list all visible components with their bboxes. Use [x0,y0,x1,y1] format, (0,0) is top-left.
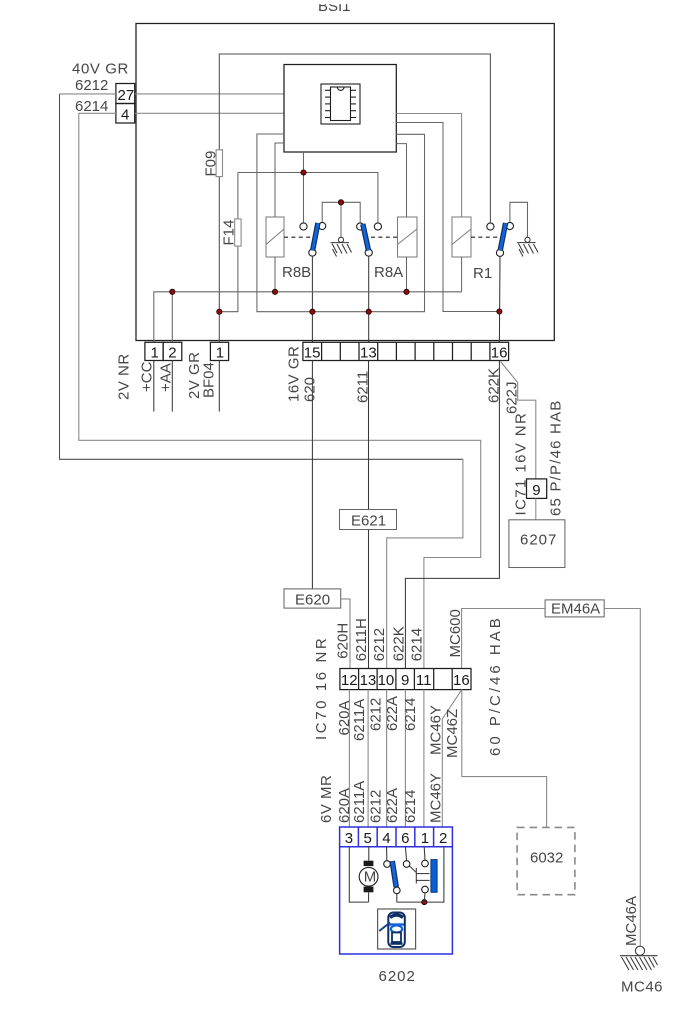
svg-text:6211H: 6211H [353,618,370,661]
wire CPU to R8B left contact node [303,152,305,173]
wire R8B coil top to CPU [275,143,284,217]
fuse F14 wire [219,173,238,312]
wire pin2 drop [171,292,173,343]
svg-text:40V GR: 40V GR [72,61,129,78]
R8A contact right [374,223,381,230]
wire pin4 to CPU [135,112,284,114]
relay R8B coil [266,217,284,257]
wire R8A coil top to CPU [396,144,406,217]
pin 27 box [116,84,135,104]
CPU inner box [284,65,396,153]
pin 4 box [116,104,135,124]
relay R1 coil [452,217,471,257]
svg-text:MC600: MC600 [447,609,464,657]
svg-text:13: 13 [360,345,377,362]
svg-text:622A: 622A [384,788,401,823]
node bus1 R8A coil [404,289,409,294]
wire pin6 to contact [405,847,406,861]
wire C2 to bus [423,893,426,902]
svg-text:15: 15 [304,345,321,362]
wire bus2 right segment [396,123,499,312]
node bus1 pin2 [170,289,175,294]
wire 6214 row2 pin11 to pin1 [423,690,425,827]
fuse F09 [216,150,222,177]
R8B blue bar [313,223,318,251]
pin 1 box [145,342,163,360]
svg-text:10: 10 [378,672,395,689]
wire bus1 supply y292 [154,292,462,343]
svg-text:F14: F14 [221,220,238,246]
svg-text:16V GR: 16V GR [286,346,303,402]
wire MC600 from EM46A to pin16 row2 [462,609,545,669]
svg-text:5: 5 [364,830,372,847]
wire S1 bottom to bus [396,894,398,902]
connector box 9 IC71 [527,479,547,499]
splice E620 box [284,589,341,608]
actuator linkage [410,866,430,883]
wire 6214 from pin 4 to left and down [79,113,481,668]
wire 622K down-left to pin9 row2 [405,361,499,669]
svg-text:MC46Y: MC46Y [428,705,445,755]
svg-text:2: 2 [439,830,447,847]
pin 1 BF04 box [210,342,228,360]
node junction y173 [301,170,306,175]
wire stub +CC [153,361,155,412]
svg-text:4: 4 [121,107,129,124]
connector row2 [340,669,471,690]
svg-text:R8B: R8B [282,264,311,281]
svg-text:BF04: BF04 [200,362,217,398]
6202 connector strip [340,827,453,847]
wire 6212 from pin 27 to left [60,93,116,95]
svg-text:2V NR: 2V NR [116,353,133,400]
svg-text:M: M [364,868,377,885]
wire ground bus R8B-R8A y202 [322,202,360,222]
svg-text:6214: 6214 [408,628,425,661]
svg-text:MC46Z: MC46Z [444,709,461,758]
node ground junction [338,200,343,205]
wire MC46Z row2 pin16 to 6032 [462,690,547,828]
component 6207 box [509,520,565,568]
contact B [403,861,410,868]
R1 dashed link [471,236,498,238]
svg-text:6211: 6211 [354,371,371,403]
R8B contact left [300,223,307,230]
svg-text:9: 9 [401,672,409,689]
switch S1 bottom contact [394,887,401,894]
wire pin5 to motor top [368,847,370,861]
wire R8B output down to pin 15 [311,256,313,342]
motor M [364,861,374,866]
wire R1 coil bottom [461,257,463,292]
wire stub +AA [171,361,173,412]
svg-text:E621: E621 [351,513,386,530]
wire pin3 to motor bottom [349,847,368,902]
svg-text:6207: 6207 [520,532,557,549]
svg-text:12: 12 [341,672,358,689]
svg-text:622J: 622J [504,381,521,414]
wire 622A row2 pin9 to pin6 [404,690,406,827]
car pictogram [388,913,405,948]
switch S1 blue bar [392,861,396,887]
node bus2 R8A [366,309,371,314]
wire pin4 to switch [386,847,388,861]
svg-text:6202: 6202 [379,968,416,985]
svg-text:R8A: R8A [374,264,403,281]
svg-text:60 P/C/46 HAB: 60 P/C/46 HAB [487,615,504,756]
node bus2 R8B [310,309,315,314]
svg-text:E620: E620 [295,592,330,609]
wire top bus y54 from F09 to R1 switch [219,54,490,342]
wire 622J diagonal to IC71 [501,362,536,479]
R8A contact bottom [365,249,372,256]
svg-text:13: 13 [360,672,377,689]
wire R1 coil top to CPU [396,114,461,218]
IC chip symbol [321,84,360,124]
svg-text:F09: F09 [203,151,220,177]
wire 6212 descent to pin 10 [387,459,463,668]
R1 blue bar [500,223,505,251]
contact C2 [422,886,429,893]
wire bottom bus to pin2 [397,847,444,902]
BSI unit box [136,24,554,341]
wire motor bottom [368,892,370,902]
svg-text:6212: 6212 [75,77,108,94]
svg-text:3: 3 [345,830,353,847]
wire 620A row2 pin12 to pin3 [348,690,350,827]
wire stub BF04 [218,361,220,412]
svg-text:11: 11 [416,672,432,689]
svg-text:65 P/P/46 HAB: 65 P/P/46 HAB [548,400,565,517]
svg-text:+AA: +AA [157,363,174,392]
fuse F14 [235,219,241,246]
svg-text:9: 9 [532,482,540,499]
svg-text:16: 16 [491,345,508,362]
svg-text:EM46A: EM46A [551,601,600,618]
wire R8B left contact up [303,173,305,223]
svg-text:622K: 622K [485,368,502,403]
node bus2 F09 [217,309,222,314]
pin 2 box [163,342,182,360]
wire R8A output down to pin 13 [368,256,370,342]
wire box9 to 6207 [535,498,537,519]
R8B contact bottom [309,249,316,256]
component 6032 dashed box [517,827,575,894]
car pictogram box [378,909,416,949]
svg-text:6214: 6214 [402,698,419,731]
svg-text:6032: 6032 [530,850,563,867]
wire R8A coil bottom [406,257,408,292]
svg-text:16: 16 [453,672,470,689]
ground symbol G2 [517,237,538,256]
svg-text:2: 2 [168,345,176,362]
wire pin27 to CPU [135,93,284,95]
wire MC46A from EM46A to ground [604,609,640,946]
svg-text:MC46Y: MC46Y [428,773,445,823]
svg-text:27: 27 [118,87,135,104]
ground symbol G1 [331,237,352,256]
node bus1 R8B coil [272,289,277,294]
ground MC46 [620,946,658,970]
svg-text:R1: R1 [473,265,492,282]
svg-text:6212: 6212 [368,698,385,731]
R8A blue bar [363,224,369,251]
wire 620 down to E620 [311,361,313,589]
R8B contact right [319,222,326,229]
svg-text:622K: 622K [390,626,407,661]
svg-text:6214: 6214 [75,98,108,115]
connector strip 15..16 [303,342,509,360]
svg-text:MC46: MC46 [621,979,663,996]
wire R1 right contact to ground [510,202,528,237]
R1 contact right [506,222,513,229]
R8A dashed link [371,236,398,238]
svg-text:6212: 6212 [368,790,385,823]
R1 contact bottom [496,249,503,256]
svg-text:6212: 6212 [371,628,388,661]
svg-text:1: 1 [421,830,429,847]
svg-text:1: 1 [216,345,224,362]
svg-text:1: 1 [151,345,159,362]
breaker blue bar [431,860,437,893]
svg-text:6211A: 6211A [351,781,368,823]
wire E620 output to pin12 row2 [341,599,350,669]
svg-text:+CC: +CC [139,361,156,392]
wire pin1 to contact C1 [423,847,426,860]
car pointer line [379,923,390,932]
wire R8B coil bottom [274,257,276,292]
wire bus y173 from F14 to R8A [238,173,378,223]
R8B dashed link [284,236,311,238]
svg-text:IC71 16V NR: IC71 16V NR [513,412,530,516]
splice EM46A box [545,600,604,617]
svg-text:6214: 6214 [402,790,419,823]
node bottom bus [422,900,427,905]
wire ground drop [340,202,342,237]
R8A contact left [357,223,364,230]
R1 contact left [487,223,494,230]
svg-text:620: 620 [302,377,319,402]
wire MC46Y row2 pin16 to pin2 [442,690,462,827]
svg-text:620H: 620H [335,623,352,659]
svg-text:6: 6 [401,830,409,847]
wire 6211 down through E621 [368,361,370,669]
splice E621 box [340,510,397,530]
node bus2 R1 [497,309,502,314]
svg-text:MC46A: MC46A [623,896,640,946]
wire 6212 left vertical run [60,94,463,459]
wire 6212 row2 pin10 to pin4 [386,690,388,827]
component 6202 window motor unit box [340,827,453,954]
wire 6211A row2 pin13 to pin5 [367,690,369,827]
contact C1 [422,860,429,867]
wire R1 output down to pin 16 [498,256,501,342]
switch S1 top contact [384,861,391,868]
wire bus2 fused feed y311.7 U-shape [257,134,425,312]
svg-text:4: 4 [382,830,390,847]
relay R8A coil [398,217,418,257]
svg-text:6V MR: 6V MR [318,775,335,823]
svg-text:6211A: 6211A [351,699,368,741]
svg-text:622A: 622A [384,696,401,731]
svg-text:IC70 16 NR: IC70 16 NR [313,636,330,740]
